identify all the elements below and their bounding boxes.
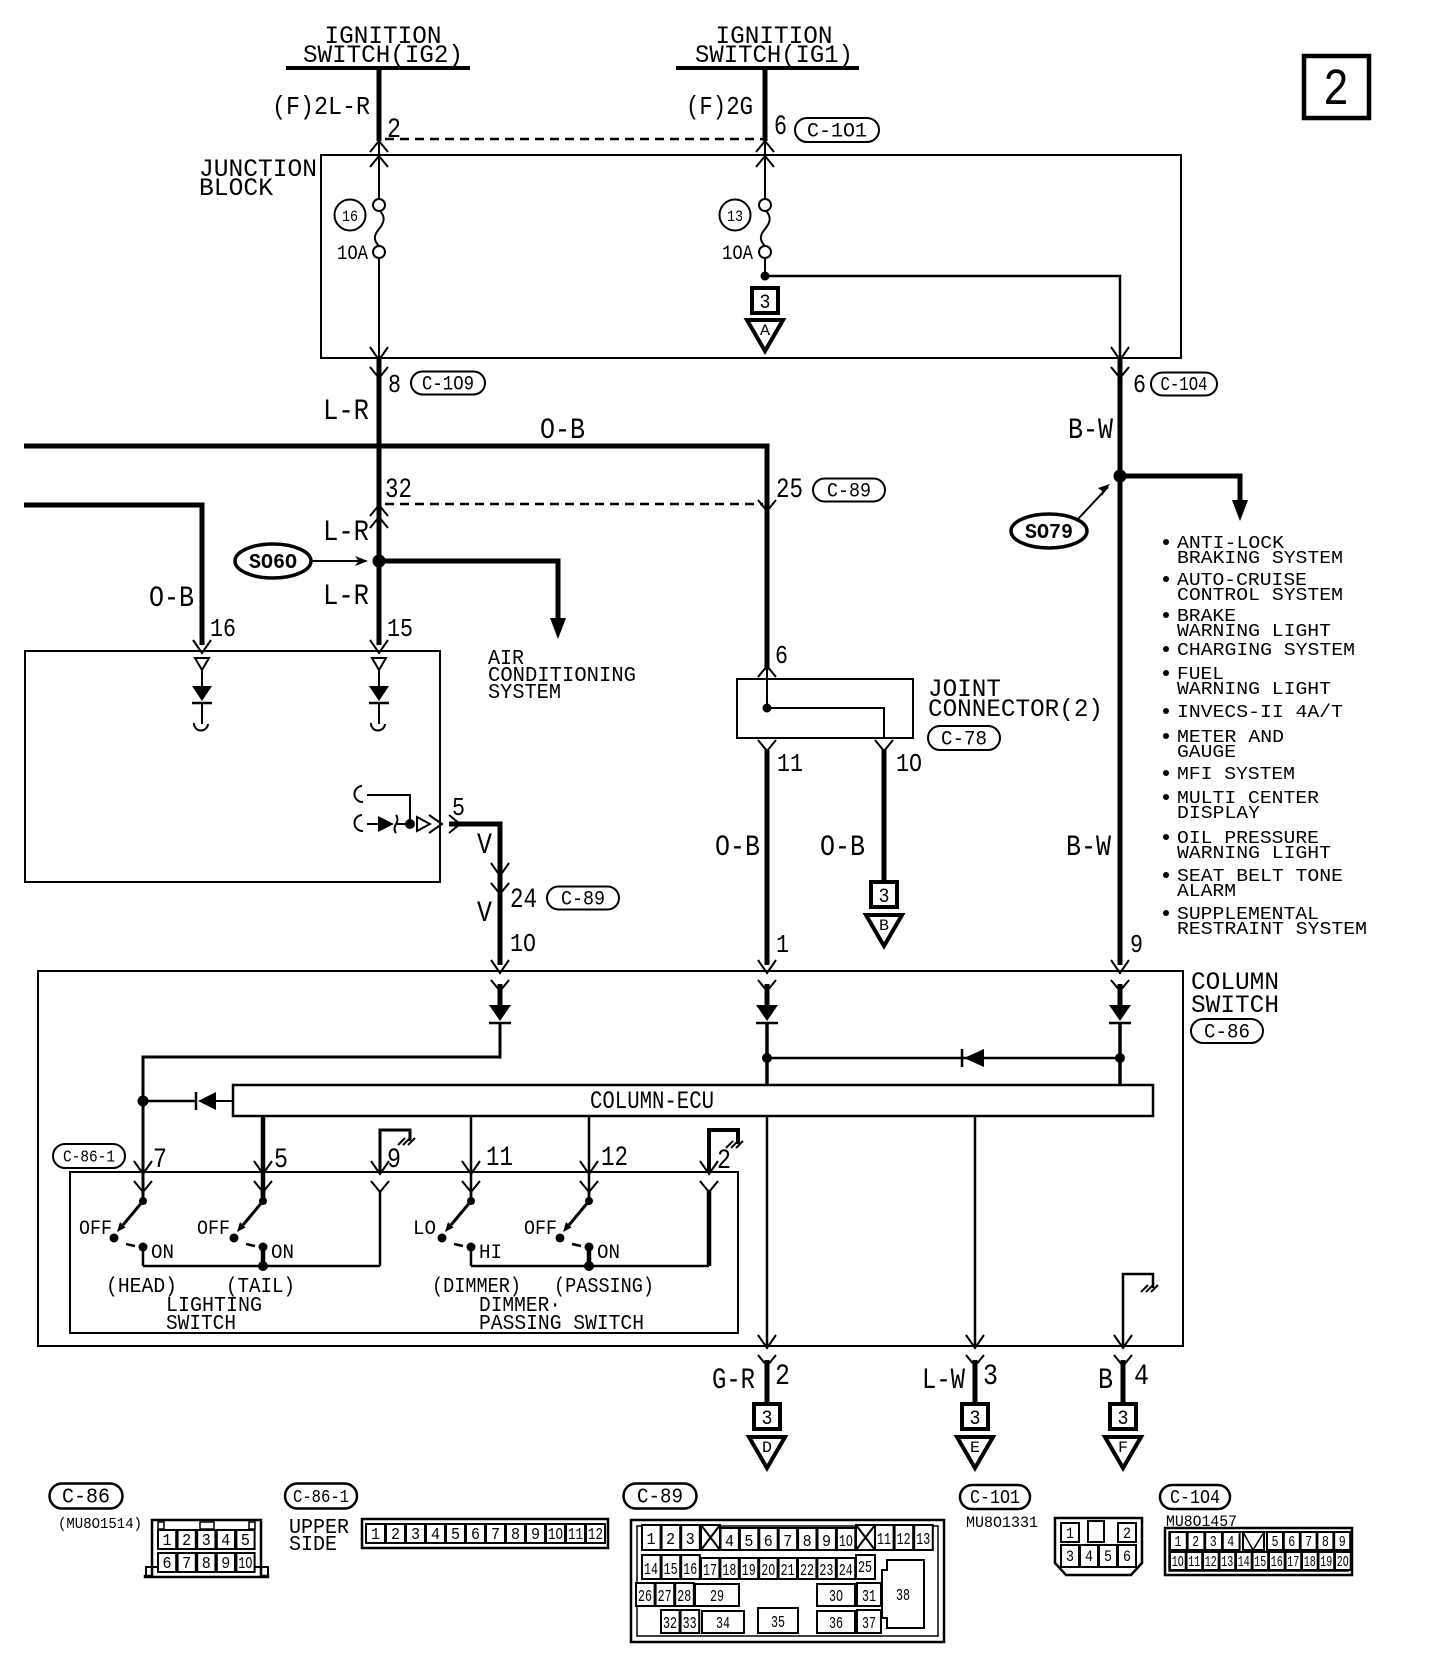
svg-text:CHARGING SYSTEM: CHARGING SYSTEM xyxy=(1177,640,1355,661)
svg-text:12: 12 xyxy=(1205,1554,1217,1571)
svg-text:L-W: L-W xyxy=(922,1364,965,1398)
svg-text:C-1O4: C-1O4 xyxy=(1170,1487,1220,1509)
connector crossing bottom x975 xyxy=(966,1335,984,1348)
svg-text:1: 1 xyxy=(1175,1534,1182,1551)
svg-text:5: 5 xyxy=(744,1533,753,1552)
connector C-86 label xyxy=(50,1484,123,1509)
svg-text:SYSTEM: SYSTEM xyxy=(488,682,561,705)
svg-text:F: F xyxy=(1118,1439,1128,1457)
wire O-B to ECU xyxy=(765,1023,769,1085)
svg-text:14: 14 xyxy=(1238,1554,1250,1571)
svg-text:BRAKING SYSTEM: BRAKING SYSTEM xyxy=(1177,548,1343,569)
svg-text:3: 3 xyxy=(202,1532,211,1551)
svg-text:ON: ON xyxy=(597,1242,620,1265)
svg-text:4: 4 xyxy=(431,1526,440,1545)
fuse 16 circle label xyxy=(335,200,366,231)
svg-text:36: 36 xyxy=(829,1615,843,1634)
wire G-R feed xyxy=(766,1116,769,1346)
diode chain pin16 xyxy=(195,658,209,670)
svg-text:PASSING SWITCH: PASSING SWITCH xyxy=(479,1313,644,1336)
relay box xyxy=(25,651,440,882)
svg-text:1O: 1O xyxy=(839,1533,853,1552)
wire branch to systems list xyxy=(1120,476,1240,500)
svg-text:GAUGE: GAUGE xyxy=(1177,742,1236,763)
svg-text:B: B xyxy=(879,917,889,935)
wire pin5 feed xyxy=(261,1116,266,1198)
svg-text:DISPLAY: DISPLAY xyxy=(1177,803,1260,824)
svg-text:8: 8 xyxy=(1322,1534,1329,1551)
connector crossing C-109 pin8 xyxy=(370,347,388,360)
svg-text:ON: ON xyxy=(151,1242,174,1265)
node IGNITION SWITCH (IG1) bar xyxy=(676,66,859,70)
column switch box xyxy=(38,971,1183,1346)
svg-text:6: 6 xyxy=(775,641,788,671)
wire B-W main xyxy=(1118,358,1123,965)
svg-text:(MU8O1514): (MU8O1514) xyxy=(58,1516,142,1533)
connector crossing column V xyxy=(491,960,509,973)
svg-text:SWITCH(IG1): SWITCH(IG1) xyxy=(695,41,853,70)
svg-text:9: 9 xyxy=(822,1533,831,1552)
svg-text:2: 2 xyxy=(775,1360,790,1394)
connector crossing C-89 pin24 xyxy=(491,863,509,876)
svg-text:12: 12 xyxy=(897,1531,911,1550)
svg-text:9: 9 xyxy=(221,1555,230,1574)
diode bus left-pointing xyxy=(964,1049,984,1067)
svg-text:26: 26 xyxy=(638,1588,652,1607)
svg-text:(F)2G: (F)2G xyxy=(686,92,753,122)
svg-text:C-86-1: C-86-1 xyxy=(293,1488,349,1508)
svg-text:C-1O9: C-1O9 xyxy=(422,373,474,396)
connector C-89 label ref top xyxy=(813,479,885,502)
svg-text:SO79: SO79 xyxy=(1025,522,1073,545)
connector C-78 label xyxy=(928,726,1000,750)
svg-text:B: B xyxy=(1098,1364,1113,1398)
svg-text:2: 2 xyxy=(666,1531,675,1550)
wire diode bus xyxy=(767,1057,1120,1060)
svg-text:1O: 1O xyxy=(510,929,536,959)
svg-text:18: 18 xyxy=(1304,1554,1316,1571)
svg-text:8: 8 xyxy=(511,1526,520,1545)
svg-text:5: 5 xyxy=(452,793,465,823)
connector crossing C-86-1 x143 xyxy=(134,1161,152,1174)
terminal 3 box A xyxy=(752,288,778,313)
svg-text:21: 21 xyxy=(781,1562,795,1581)
wire O-B pin10 stub xyxy=(882,750,887,882)
svg-text:L-R: L-R xyxy=(323,395,369,429)
connector crossing C-101 pin2 xyxy=(370,141,388,152)
svg-text:1: 1 xyxy=(1066,1525,1074,1543)
wire L-W exit xyxy=(973,1360,978,1404)
svg-text:3: 3 xyxy=(970,1408,981,1431)
svg-text:6: 6 xyxy=(471,1526,480,1545)
svg-text:WARNING LIGHT: WARNING LIGHT xyxy=(1177,621,1331,642)
connector C-86-1 label ref xyxy=(53,1144,125,1168)
connector crossing C-86-1 x380 xyxy=(371,1161,389,1174)
connector crossing C-104 pin6 xyxy=(1111,347,1129,360)
svg-text:23: 23 xyxy=(819,1562,833,1581)
svg-text:2: 2 xyxy=(182,1532,191,1551)
svg-text:1O: 1O xyxy=(896,749,922,779)
svg-text:1: 1 xyxy=(647,1531,656,1550)
svg-text:BLOCK: BLOCK xyxy=(199,174,273,203)
fuse 13 symbol xyxy=(759,199,771,211)
svg-text:14: 14 xyxy=(644,1561,658,1580)
svg-text:32: 32 xyxy=(385,475,412,506)
connector C-104 label xyxy=(1160,1485,1230,1509)
svg-text:5: 5 xyxy=(241,1532,250,1551)
svg-text:RESTRAINT SYSTEM: RESTRAINT SYSTEM xyxy=(1177,919,1367,940)
ground triangle D xyxy=(749,1437,785,1468)
svg-text:O-B: O-B xyxy=(149,582,194,616)
connector C-89 label xyxy=(624,1484,697,1509)
svg-text:11: 11 xyxy=(777,749,803,779)
svg-text:LO: LO xyxy=(413,1218,436,1241)
svg-text:V: V xyxy=(477,829,492,863)
svg-text:16: 16 xyxy=(342,208,358,226)
svg-text:C-86: C-86 xyxy=(1204,1021,1250,1044)
svg-text:C-89: C-89 xyxy=(561,888,605,911)
svg-text:ALARM: ALARM xyxy=(1177,881,1236,902)
svg-text:WARNING LIGHT: WARNING LIGHT xyxy=(1177,679,1331,700)
svg-text:2: 2 xyxy=(1192,1534,1199,1551)
wire pin12 feed xyxy=(588,1116,591,1198)
svg-text:SO6O: SO6O xyxy=(249,552,297,575)
diode B-W line xyxy=(1109,1005,1131,1021)
svg-text:19: 19 xyxy=(1320,1554,1332,1571)
svg-text:4: 4 xyxy=(1085,1548,1093,1566)
junction node pin7 branch xyxy=(138,1096,149,1107)
connector C-109 label xyxy=(411,372,485,395)
svg-text:35: 35 xyxy=(771,1614,785,1633)
connector crossing pin15 xyxy=(370,640,388,653)
svg-text:6: 6 xyxy=(1288,1534,1295,1551)
svg-text:C-89: C-89 xyxy=(637,1487,683,1510)
svg-text:29: 29 xyxy=(710,1588,724,1607)
svg-text:INVECS-II 4A/T: INVECS-II 4A/T xyxy=(1177,702,1343,723)
svg-text:7: 7 xyxy=(491,1526,500,1545)
fuse 16 symbol xyxy=(373,199,385,211)
svg-text:22: 22 xyxy=(800,1562,814,1581)
svg-text:24: 24 xyxy=(510,885,537,916)
connector crossing pin5 out xyxy=(429,815,442,833)
svg-text:1O: 1O xyxy=(1172,1554,1184,1571)
svg-text:C-89: C-89 xyxy=(827,480,871,503)
svg-text:SIDE: SIDE xyxy=(289,1534,337,1557)
svg-text:WARNING LIGHT: WARNING LIGHT xyxy=(1177,843,1331,864)
wire IG1 feed stub xyxy=(763,68,768,141)
connector C-86-1 label xyxy=(285,1484,357,1509)
svg-text:4: 4 xyxy=(725,1533,734,1552)
svg-text:OFF: OFF xyxy=(197,1218,230,1241)
svg-text:4: 4 xyxy=(221,1532,230,1551)
svg-text:6: 6 xyxy=(163,1555,172,1574)
svg-text:13: 13 xyxy=(916,1531,930,1550)
wire dashed connector line C-101 xyxy=(385,138,765,141)
svg-text:B-W: B-W xyxy=(1066,831,1111,865)
svg-text:4: 4 xyxy=(1227,1534,1234,1551)
diode pin7 to ECU xyxy=(148,1100,196,1103)
svg-text:17: 17 xyxy=(703,1562,717,1581)
svg-text:O-B: O-B xyxy=(540,414,585,448)
svg-text:16: 16 xyxy=(683,1561,697,1580)
svg-text:1O: 1O xyxy=(548,1526,563,1545)
svg-text:31: 31 xyxy=(862,1588,876,1607)
svg-text:18: 18 xyxy=(722,1562,736,1581)
svg-text:2O: 2O xyxy=(1337,1554,1349,1571)
svg-text:6: 6 xyxy=(1133,370,1146,400)
svg-text:3: 3 xyxy=(983,1360,998,1394)
svg-text:11: 11 xyxy=(568,1526,583,1545)
svg-text:1: 1 xyxy=(776,930,789,960)
svg-text:16: 16 xyxy=(210,614,236,644)
connector C-101 label xyxy=(960,1485,1030,1509)
connector crossing C-101 pin6 xyxy=(756,141,774,152)
connector crossing C-89 pin25 xyxy=(758,500,776,511)
svg-text:9: 9 xyxy=(531,1526,540,1545)
svg-text:5: 5 xyxy=(1104,1548,1112,1566)
svg-text:C-1O1: C-1O1 xyxy=(970,1487,1020,1509)
svg-text:7: 7 xyxy=(783,1533,792,1552)
svg-text:3: 3 xyxy=(686,1531,695,1550)
wire V inside xyxy=(498,984,503,1005)
splice S079 arrow xyxy=(1078,487,1108,519)
wire branch to air conditioning xyxy=(379,561,558,620)
wire O-B inside xyxy=(765,984,770,1005)
svg-text:OFF: OFF xyxy=(524,1218,557,1241)
ground triangle E xyxy=(957,1437,993,1468)
terminal 3 box E xyxy=(962,1404,988,1429)
svg-text:11: 11 xyxy=(486,1143,513,1174)
svg-text:MFI SYSTEM: MFI SYSTEM xyxy=(1177,764,1295,785)
svg-text:6: 6 xyxy=(1123,1548,1131,1566)
ground hook pin9 xyxy=(380,1130,410,1172)
ground triangle F xyxy=(1105,1437,1141,1468)
label systems list xyxy=(1163,539,1169,545)
connector C-86 pinout drawing xyxy=(145,1520,268,1577)
connector crossing C-86-1 x263 xyxy=(254,1161,272,1174)
svg-text:15: 15 xyxy=(664,1561,678,1580)
wire fuse13 junction to right corner xyxy=(765,276,1120,358)
connector crossing C-86-1 x471 xyxy=(462,1161,480,1174)
svg-text:1OA: 1OA xyxy=(722,243,753,266)
svg-text:4: 4 xyxy=(1134,1360,1149,1394)
svg-text:SWITCH(IG2): SWITCH(IG2) xyxy=(303,41,463,70)
svg-text:1O: 1O xyxy=(238,1555,252,1574)
svg-text:13: 13 xyxy=(727,208,743,226)
wire B-W to ECU xyxy=(1118,1023,1122,1085)
svg-text:9: 9 xyxy=(1339,1534,1346,1551)
svg-text:A: A xyxy=(760,322,770,340)
svg-text:2: 2 xyxy=(387,115,401,146)
svg-text:2: 2 xyxy=(1323,61,1349,120)
diode chain pin15 xyxy=(372,658,386,670)
svg-text:15: 15 xyxy=(387,614,413,644)
junction node B-W diode bus xyxy=(1115,1053,1125,1063)
svg-text:C-1O1: C-1O1 xyxy=(807,120,867,143)
splice S060 oval xyxy=(235,544,311,578)
svg-text:27: 27 xyxy=(658,1588,672,1607)
wire O-B left branch xyxy=(24,505,202,645)
svg-text:16: 16 xyxy=(1271,1554,1283,1571)
svg-text:5: 5 xyxy=(1272,1534,1279,1551)
svg-text:2O: 2O xyxy=(761,1562,775,1581)
node IGNITION SWITCH (IG2) bar xyxy=(286,66,470,70)
lighting switch box C-86-1 xyxy=(70,1172,738,1333)
svg-text:(F)2L-R: (F)2L-R xyxy=(272,92,370,122)
svg-text:1: 1 xyxy=(163,1532,172,1551)
svg-text:(PASSING): (PASSING) xyxy=(554,1276,654,1299)
svg-text:2: 2 xyxy=(1123,1525,1131,1543)
connector crossing pin16 xyxy=(193,640,211,653)
svg-text:7: 7 xyxy=(1305,1534,1312,1551)
wire B exit xyxy=(1121,1360,1126,1404)
junction node joint xyxy=(763,704,772,713)
svg-text:3: 3 xyxy=(1210,1534,1217,1551)
switch HEAD xyxy=(142,1191,145,1201)
splice S079 oval xyxy=(1011,514,1087,548)
wire IG2 to fuse 16 xyxy=(378,141,380,200)
connector C-101 pinout drawing xyxy=(1055,1518,1142,1575)
connector C-104 pinout drawing xyxy=(1165,1528,1352,1575)
wire L-W feed xyxy=(974,1116,977,1346)
svg-text:O-B: O-B xyxy=(820,831,865,865)
connector crossing bottom x767 xyxy=(758,1335,776,1348)
wire L-R main xyxy=(377,358,382,645)
svg-text:37: 37 xyxy=(862,1615,876,1634)
svg-text:17: 17 xyxy=(1287,1554,1299,1571)
wire IG2 feed stub xyxy=(377,68,382,141)
svg-text:ON: ON xyxy=(271,1242,294,1265)
diode V line xyxy=(489,1005,511,1021)
splice S060 arrow xyxy=(312,560,366,562)
wire joint internal xyxy=(767,708,884,738)
svg-text:32: 32 xyxy=(663,1615,677,1634)
page number 2 box xyxy=(1304,56,1369,118)
connector C-86-1 pinout drawing xyxy=(362,1519,608,1548)
joint connector box xyxy=(737,679,913,738)
svg-text:B-W: B-W xyxy=(1068,414,1113,448)
svg-text:3: 3 xyxy=(1066,1548,1074,1566)
wire O-B main horizontal xyxy=(24,446,767,670)
junction node S060 xyxy=(373,555,386,568)
COLUMN-ECU box xyxy=(233,1085,1153,1116)
svg-text:8: 8 xyxy=(803,1533,812,1552)
svg-text:1: 1 xyxy=(371,1526,380,1545)
svg-text:8: 8 xyxy=(388,370,401,400)
svg-text:7: 7 xyxy=(182,1555,191,1574)
svg-text:34: 34 xyxy=(716,1615,730,1634)
wire G-R exit xyxy=(765,1360,770,1404)
switch DIMMER xyxy=(470,1191,473,1201)
svg-text:G-R: G-R xyxy=(712,1364,755,1398)
svg-text:9: 9 xyxy=(1130,930,1143,960)
svg-text:3: 3 xyxy=(879,886,890,909)
ground triangle A xyxy=(747,320,783,351)
svg-text:12: 12 xyxy=(588,1526,603,1545)
svg-text:L-R: L-R xyxy=(323,580,369,614)
svg-text:D: D xyxy=(762,1439,772,1457)
svg-text:25: 25 xyxy=(858,1559,872,1578)
svg-text:3: 3 xyxy=(1118,1408,1129,1431)
terminal 3 box D xyxy=(754,1404,780,1429)
svg-text:38: 38 xyxy=(896,1587,910,1606)
wire V to bus xyxy=(143,1023,500,1198)
svg-text:11: 11 xyxy=(1188,1554,1200,1571)
junction node fuse13 output xyxy=(761,272,770,281)
connector crossing C-89 pin32 xyxy=(370,505,388,516)
svg-text:24: 24 xyxy=(839,1562,853,1581)
diode O-B line xyxy=(756,1005,778,1021)
junction block box xyxy=(321,155,1181,358)
ground hook B line xyxy=(1123,1274,1153,1346)
svg-text:E: E xyxy=(970,1439,980,1457)
connector crossing joint in xyxy=(758,666,776,677)
connector crossing joint out 11 xyxy=(758,740,776,751)
svg-text:28: 28 xyxy=(677,1588,691,1607)
connector crossing C-86-1 x709 xyxy=(700,1161,718,1174)
svg-text:SWITCH: SWITCH xyxy=(166,1313,236,1336)
svg-text:3: 3 xyxy=(760,292,771,315)
svg-text:25: 25 xyxy=(776,475,803,506)
svg-text:COLUMN-ECU: COLUMN-ECU xyxy=(590,1087,714,1116)
wire B-W inside xyxy=(1118,984,1123,1005)
connector C-104 label ref xyxy=(1151,373,1217,396)
fuse 13 circle label xyxy=(720,200,751,231)
svg-text:11: 11 xyxy=(877,1531,891,1550)
svg-text:CONTROL SYSTEM: CONTROL SYSTEM xyxy=(1177,585,1343,606)
switch TAIL xyxy=(261,1191,266,1201)
wire IG1 to fuse 13 xyxy=(764,141,766,200)
svg-text:3: 3 xyxy=(762,1408,773,1431)
svg-text:12: 12 xyxy=(601,1143,628,1174)
connector C-101 label xyxy=(795,118,879,142)
svg-text:L-R: L-R xyxy=(323,516,369,550)
switch PASSING xyxy=(588,1191,591,1201)
ground triangle B xyxy=(866,915,902,946)
svg-text:C-86-1: C-86-1 xyxy=(63,1148,115,1167)
terminal 3 box F xyxy=(1110,1404,1136,1429)
connector crossing column O-B xyxy=(758,960,776,973)
svg-text:3O: 3O xyxy=(829,1588,843,1607)
svg-text:8: 8 xyxy=(202,1555,211,1574)
terminal 3 box B xyxy=(871,882,897,907)
connector crossing joint out 10 xyxy=(875,740,893,751)
svg-text:O-B: O-B xyxy=(715,831,760,865)
wire fuse 16 to block edge xyxy=(378,257,380,358)
wire O-B pin1 xyxy=(765,750,770,965)
connector crossing bottom x1123 xyxy=(1114,1335,1132,1348)
connector C-89 label ref2 xyxy=(547,887,619,910)
svg-text:2: 2 xyxy=(391,1526,400,1545)
svg-text:C-78: C-78 xyxy=(941,728,987,751)
svg-text:5: 5 xyxy=(451,1526,460,1545)
junction node S079 xyxy=(1114,470,1127,483)
svg-text:MU8O1331: MU8O1331 xyxy=(966,1514,1038,1532)
connector C-86 label ref xyxy=(1191,1019,1263,1043)
svg-text:C-86: C-86 xyxy=(62,1487,110,1510)
svg-text:6: 6 xyxy=(764,1533,773,1552)
wire lighting bus xyxy=(143,1265,380,1268)
svg-text:V: V xyxy=(477,897,492,931)
wire dimmer bus xyxy=(471,1265,709,1268)
svg-text:6: 6 xyxy=(774,112,787,143)
svg-text:19: 19 xyxy=(742,1562,756,1581)
connector C-89 pinout drawing xyxy=(631,1520,944,1642)
svg-text:15: 15 xyxy=(1254,1554,1266,1571)
wire fuse 13 down to junction xyxy=(764,257,766,277)
relay diode output xyxy=(354,815,363,831)
svg-text:1OA: 1OA xyxy=(337,243,368,266)
